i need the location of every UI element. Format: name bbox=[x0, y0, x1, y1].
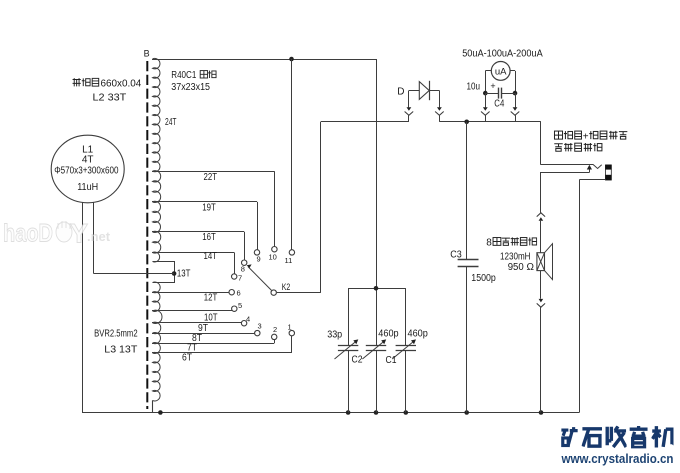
svg-text:7: 7 bbox=[238, 274, 242, 283]
svg-text:16T: 16T bbox=[202, 232, 216, 243]
svg-text:1230mH: 1230mH bbox=[500, 252, 531, 263]
svg-text:1500p: 1500p bbox=[471, 273, 496, 284]
svg-text:37x23x15: 37x23x15 bbox=[171, 82, 210, 93]
svg-text:22T: 22T bbox=[204, 172, 218, 183]
svg-text:460p: 460p bbox=[378, 328, 399, 339]
svg-text:www.crystalradio.cn: www.crystalradio.cn bbox=[561, 451, 674, 466]
svg-text:4: 4 bbox=[246, 315, 250, 324]
svg-text:3: 3 bbox=[258, 322, 262, 331]
svg-text:.net: .net bbox=[87, 229, 111, 244]
svg-text:19T: 19T bbox=[202, 203, 216, 214]
svg-text:11uH: 11uH bbox=[77, 182, 98, 193]
svg-text:BVR2.5mm2: BVR2.5mm2 bbox=[94, 329, 138, 340]
svg-text:10T: 10T bbox=[204, 313, 218, 324]
svg-text:uA: uA bbox=[495, 66, 507, 77]
svg-text:10: 10 bbox=[269, 253, 277, 262]
svg-text:Ω: Ω bbox=[527, 262, 535, 273]
svg-text:33p: 33p bbox=[327, 330, 342, 341]
svg-text:9: 9 bbox=[257, 255, 261, 264]
svg-text:11: 11 bbox=[285, 256, 293, 265]
svg-text:14T: 14T bbox=[204, 251, 218, 262]
svg-text:6: 6 bbox=[237, 289, 241, 298]
svg-text:2: 2 bbox=[273, 325, 277, 334]
svg-text:R40C1: R40C1 bbox=[171, 70, 196, 81]
svg-text:C3: C3 bbox=[450, 250, 462, 261]
svg-text:D: D bbox=[397, 87, 404, 98]
svg-text:haoD: haoD bbox=[3, 220, 53, 248]
svg-text:Y: Y bbox=[70, 219, 88, 249]
svg-text:50uA-100uA-200uA: 50uA-100uA-200uA bbox=[462, 48, 543, 59]
svg-text:13T: 13T bbox=[177, 269, 191, 280]
svg-text:8: 8 bbox=[486, 237, 492, 248]
svg-text:460p: 460p bbox=[408, 329, 429, 340]
svg-text:K2: K2 bbox=[282, 282, 291, 292]
svg-text:Φ570x3+300x600: Φ570x3+300x600 bbox=[54, 166, 119, 177]
svg-text:8: 8 bbox=[241, 265, 245, 274]
svg-text:24T: 24T bbox=[165, 117, 177, 128]
svg-text:950: 950 bbox=[508, 262, 524, 273]
svg-text:C4: C4 bbox=[494, 99, 504, 110]
svg-text:L3 13T: L3 13T bbox=[104, 344, 137, 355]
svg-text:10u: 10u bbox=[467, 82, 481, 93]
svg-text:660x0.04: 660x0.04 bbox=[101, 79, 142, 90]
svg-text:+: + bbox=[490, 81, 495, 91]
svg-text:L2 33T: L2 33T bbox=[93, 92, 127, 103]
svg-text:6T: 6T bbox=[182, 353, 192, 364]
svg-text:4T: 4T bbox=[82, 154, 94, 165]
svg-text:+: + bbox=[583, 132, 589, 143]
svg-text:C2: C2 bbox=[352, 354, 363, 365]
svg-text:12T: 12T bbox=[204, 293, 218, 304]
svg-text:C1: C1 bbox=[386, 355, 397, 366]
svg-text:B: B bbox=[144, 48, 150, 58]
svg-text:5: 5 bbox=[238, 301, 242, 310]
svg-text:1: 1 bbox=[288, 323, 292, 332]
